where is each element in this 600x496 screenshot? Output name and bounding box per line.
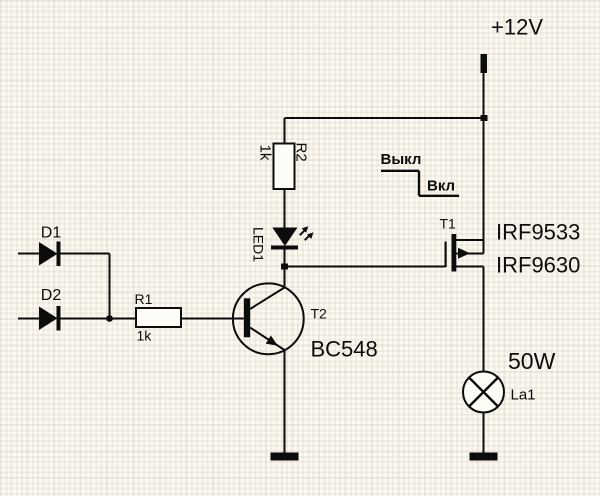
svg-text:D1: D1 <box>41 225 62 242</box>
svg-text:R1: R1 <box>135 291 153 307</box>
svg-text:T1: T1 <box>440 216 457 232</box>
svg-text:Вкл: Вкл <box>427 178 455 195</box>
svg-text:50W: 50W <box>508 348 556 374</box>
svg-text:T2: T2 <box>311 306 328 322</box>
svg-text:LED1: LED1 <box>251 227 267 262</box>
svg-text:BC548: BC548 <box>311 337 378 362</box>
svg-text:La1: La1 <box>511 387 536 404</box>
svg-text:Выкл: Выкл <box>381 151 422 168</box>
svg-text:1k: 1k <box>137 328 153 344</box>
svg-text:D2: D2 <box>41 287 62 304</box>
svg-text:+12V: +12V <box>491 15 543 40</box>
svg-text:IRF9630: IRF9630 <box>496 253 580 278</box>
svg-text:1k: 1k <box>257 145 274 161</box>
svg-text:IRF9533: IRF9533 <box>496 220 580 245</box>
